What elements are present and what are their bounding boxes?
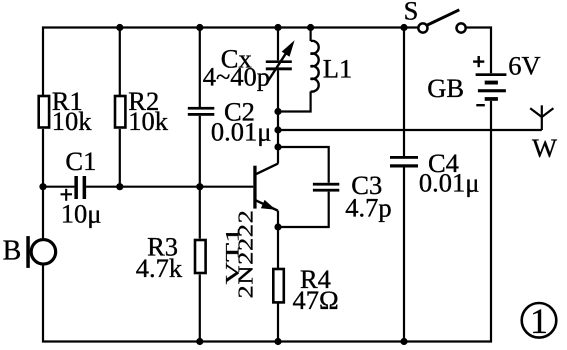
node C2 bottom / R3 top [196, 183, 203, 190]
svg-text:0.01μ: 0.01μ [419, 168, 480, 198]
svg-text:10μ: 10μ [61, 198, 102, 228]
wire from switch right contact to right rail down to battery + [466, 28, 491, 74]
svg-text:47Ω: 47Ω [293, 285, 339, 315]
node antenna wire on Cx branch [274, 126, 281, 133]
wire R3 to bottom rail [199, 275, 201, 342]
svg-text:10k: 10k [52, 106, 93, 136]
wire C4 branch lower [403, 168, 405, 342]
switch S contact circles [418, 23, 427, 32]
node C4 bottom [400, 338, 407, 345]
capacitor C4 plates [390, 156, 418, 168]
microphone B [26, 236, 55, 268]
battery GB plates [476, 73, 507, 100]
transistor VT1 base bar [253, 166, 256, 209]
wire left rail between R1 and microphone [42, 129, 44, 239]
node Cx top [274, 24, 281, 31]
battery minus sign [476, 104, 485, 106]
antenna W [530, 105, 553, 130]
resistor R2 [115, 96, 125, 128]
resistor R3 [195, 240, 206, 273]
wire Cx branch top [277, 28, 279, 61]
wire R2 branch upper [119, 28, 121, 96]
svg-text:10k: 10k [128, 106, 169, 136]
transistor VT1 emitter lead [254, 200, 278, 211]
svg-text:S: S [404, 0, 419, 25]
node R2 bottom [116, 183, 123, 190]
wire R2 branch lower [119, 129, 121, 187]
wire L1 branch top [310, 28, 312, 42]
node emitter / C3 bottom [274, 223, 281, 230]
variable capacitor Cx arrow [268, 40, 295, 81]
wire C2 branch upper [199, 28, 201, 108]
node C2 top [196, 24, 203, 31]
svg-text:L1: L1 [323, 54, 352, 84]
wire R3 branch upper [199, 187, 201, 239]
svg-text:2N2222: 2N2222 [235, 210, 258, 299]
svg-text:4.7k: 4.7k [136, 253, 183, 283]
junction node dots [39, 24, 407, 345]
transistor VT1 emitter arrowhead [261, 200, 276, 210]
svg-text:GB: GB [427, 73, 464, 103]
wire base node horizontal: C1 to transistor base [86, 186, 253, 188]
wire top rail from switch left to top-left corner and down to R1 [43, 28, 418, 96]
transistor VT1 collector lead [254, 164, 278, 176]
svg-text:B: B [3, 236, 22, 267]
svg-text:6V: 6V [508, 51, 540, 81]
node L1 top [307, 24, 314, 31]
capacitor C2 plates [188, 107, 215, 116]
wire emitter down to R4 [277, 211, 279, 269]
wire L1 bottom to Cx node [278, 91, 311, 111]
node base wire at left rail [39, 183, 46, 190]
svg-text:0.01μ: 0.01μ [211, 117, 272, 147]
resistor R4 [273, 269, 284, 302]
svg-text:4~40p: 4~40p [203, 61, 270, 91]
wire C3 bottom to emitter node [278, 192, 329, 227]
battery plus sign [473, 56, 484, 67]
resistor R1 [39, 96, 49, 128]
wire C4 branch upper [403, 28, 405, 157]
node L1 bottom on Cx branch [274, 108, 281, 115]
wire C2 branch lower [199, 116, 201, 187]
wire base node horizontal: left rail to C1 [43, 186, 74, 188]
wire collector node to antenna [278, 129, 542, 131]
node collector / C3 top [274, 143, 281, 150]
node R3 bottom [196, 338, 203, 345]
wire collector to C3 top [278, 147, 329, 183]
node R2 top [116, 24, 123, 31]
capacitor C3 plates [313, 183, 339, 192]
svg-text:1: 1 [530, 301, 548, 341]
node C4 top / switch S [400, 24, 407, 31]
svg-text:4.7p: 4.7p [345, 192, 391, 222]
wire left rail below mic, bottom rail, right rail up to battery [43, 101, 491, 342]
C1 polarity plus sign [61, 189, 73, 201]
capacitor C1 plates [74, 176, 86, 199]
switch S lever [427, 10, 460, 26]
variable capacitor Cx plates [266, 60, 292, 70]
svg-text:W: W [532, 133, 557, 163]
figure number circle [522, 303, 557, 338]
inductor L1 coil [311, 41, 319, 92]
wire Cx branch down to collector [277, 70, 279, 163]
svg-text:C1: C1 [65, 146, 96, 176]
wire R4 to bottom rail [277, 302, 279, 341]
node R4 bottom [274, 338, 281, 345]
